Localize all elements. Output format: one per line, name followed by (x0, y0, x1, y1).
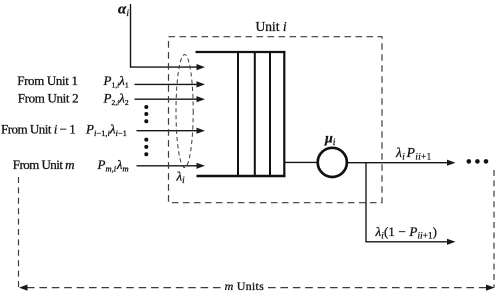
svg-text:From Unit m: From Unit m (13, 157, 74, 172)
arrowhead from unit 2 (197, 96, 206, 102)
svg-text:From Unit 2: From Unit 2 (18, 90, 78, 105)
svg-text:αi: αi (118, 2, 129, 20)
arrowhead from unit i-1 (197, 128, 206, 134)
label alpha_i (118, 2, 129, 20)
queue buffer top line (196, 51, 286, 53)
merge ellipse dashed (176, 55, 193, 168)
svg-text:λiPii+1: λiPii+1 (395, 145, 432, 162)
queue slot divider 1 (237, 51, 239, 177)
queue slot divider 3 (269, 51, 271, 177)
svg-text:P1,iλ1: P1,iλ1 (103, 73, 129, 90)
svg-text:P2,iλ2: P2,iλ2 (103, 90, 129, 107)
server circle (318, 148, 347, 177)
dashed feedback right vertical (493, 170, 495, 288)
arrowhead from unit 1 (197, 81, 206, 87)
queue buffer bottom line (197, 175, 286, 177)
arrowhead bottom right (486, 285, 495, 291)
svg-text:Pm,iλm: Pm,iλm (97, 157, 129, 174)
queue slot divider 2 (254, 51, 256, 177)
svg-text:λi: λi (176, 169, 186, 186)
queue right edge (283, 51, 285, 177)
svg-text:μi: μi (324, 131, 336, 148)
svg-text:Pi−1,iλi−1: Pi−1,iλi−1 (85, 122, 127, 139)
svg-text:Unit i: Unit i (256, 19, 287, 34)
svg-text:m Units: m Units (225, 279, 265, 293)
wire branch down (366, 163, 448, 242)
wire server output main (348, 162, 449, 164)
dashed feedback left vertical (18, 177, 20, 288)
wire from unit 1 (135, 83, 199, 85)
svg-text:From Unit i − 1: From Unit i − 1 (1, 122, 75, 137)
arrowhead from unit m (197, 163, 206, 169)
dashed bottom dimension line left part (27, 287, 222, 289)
wire alpha_i input (131, 4, 199, 67)
dots horizontal continuation (467, 159, 489, 164)
wire from unit i-1 (137, 130, 199, 132)
dashed box Unit i (169, 37, 383, 203)
arrowhead alpha_i (197, 64, 206, 70)
svg-text:From Unit 1: From Unit 1 (17, 73, 77, 88)
arrowhead bottom left (19, 285, 28, 291)
wire from unit m (137, 165, 199, 167)
svg-text:λi(1 − Pii+1): λi(1 − Pii+1) (375, 224, 438, 241)
dashed bottom dimension line right part (268, 287, 487, 289)
dots vertical lower (144, 138, 148, 157)
arrowhead output main (447, 160, 456, 166)
wire queue to server (285, 161, 317, 163)
wire from unit 2 (135, 98, 199, 100)
arrowhead branch output (447, 239, 456, 245)
dots vertical upper (144, 105, 148, 123)
